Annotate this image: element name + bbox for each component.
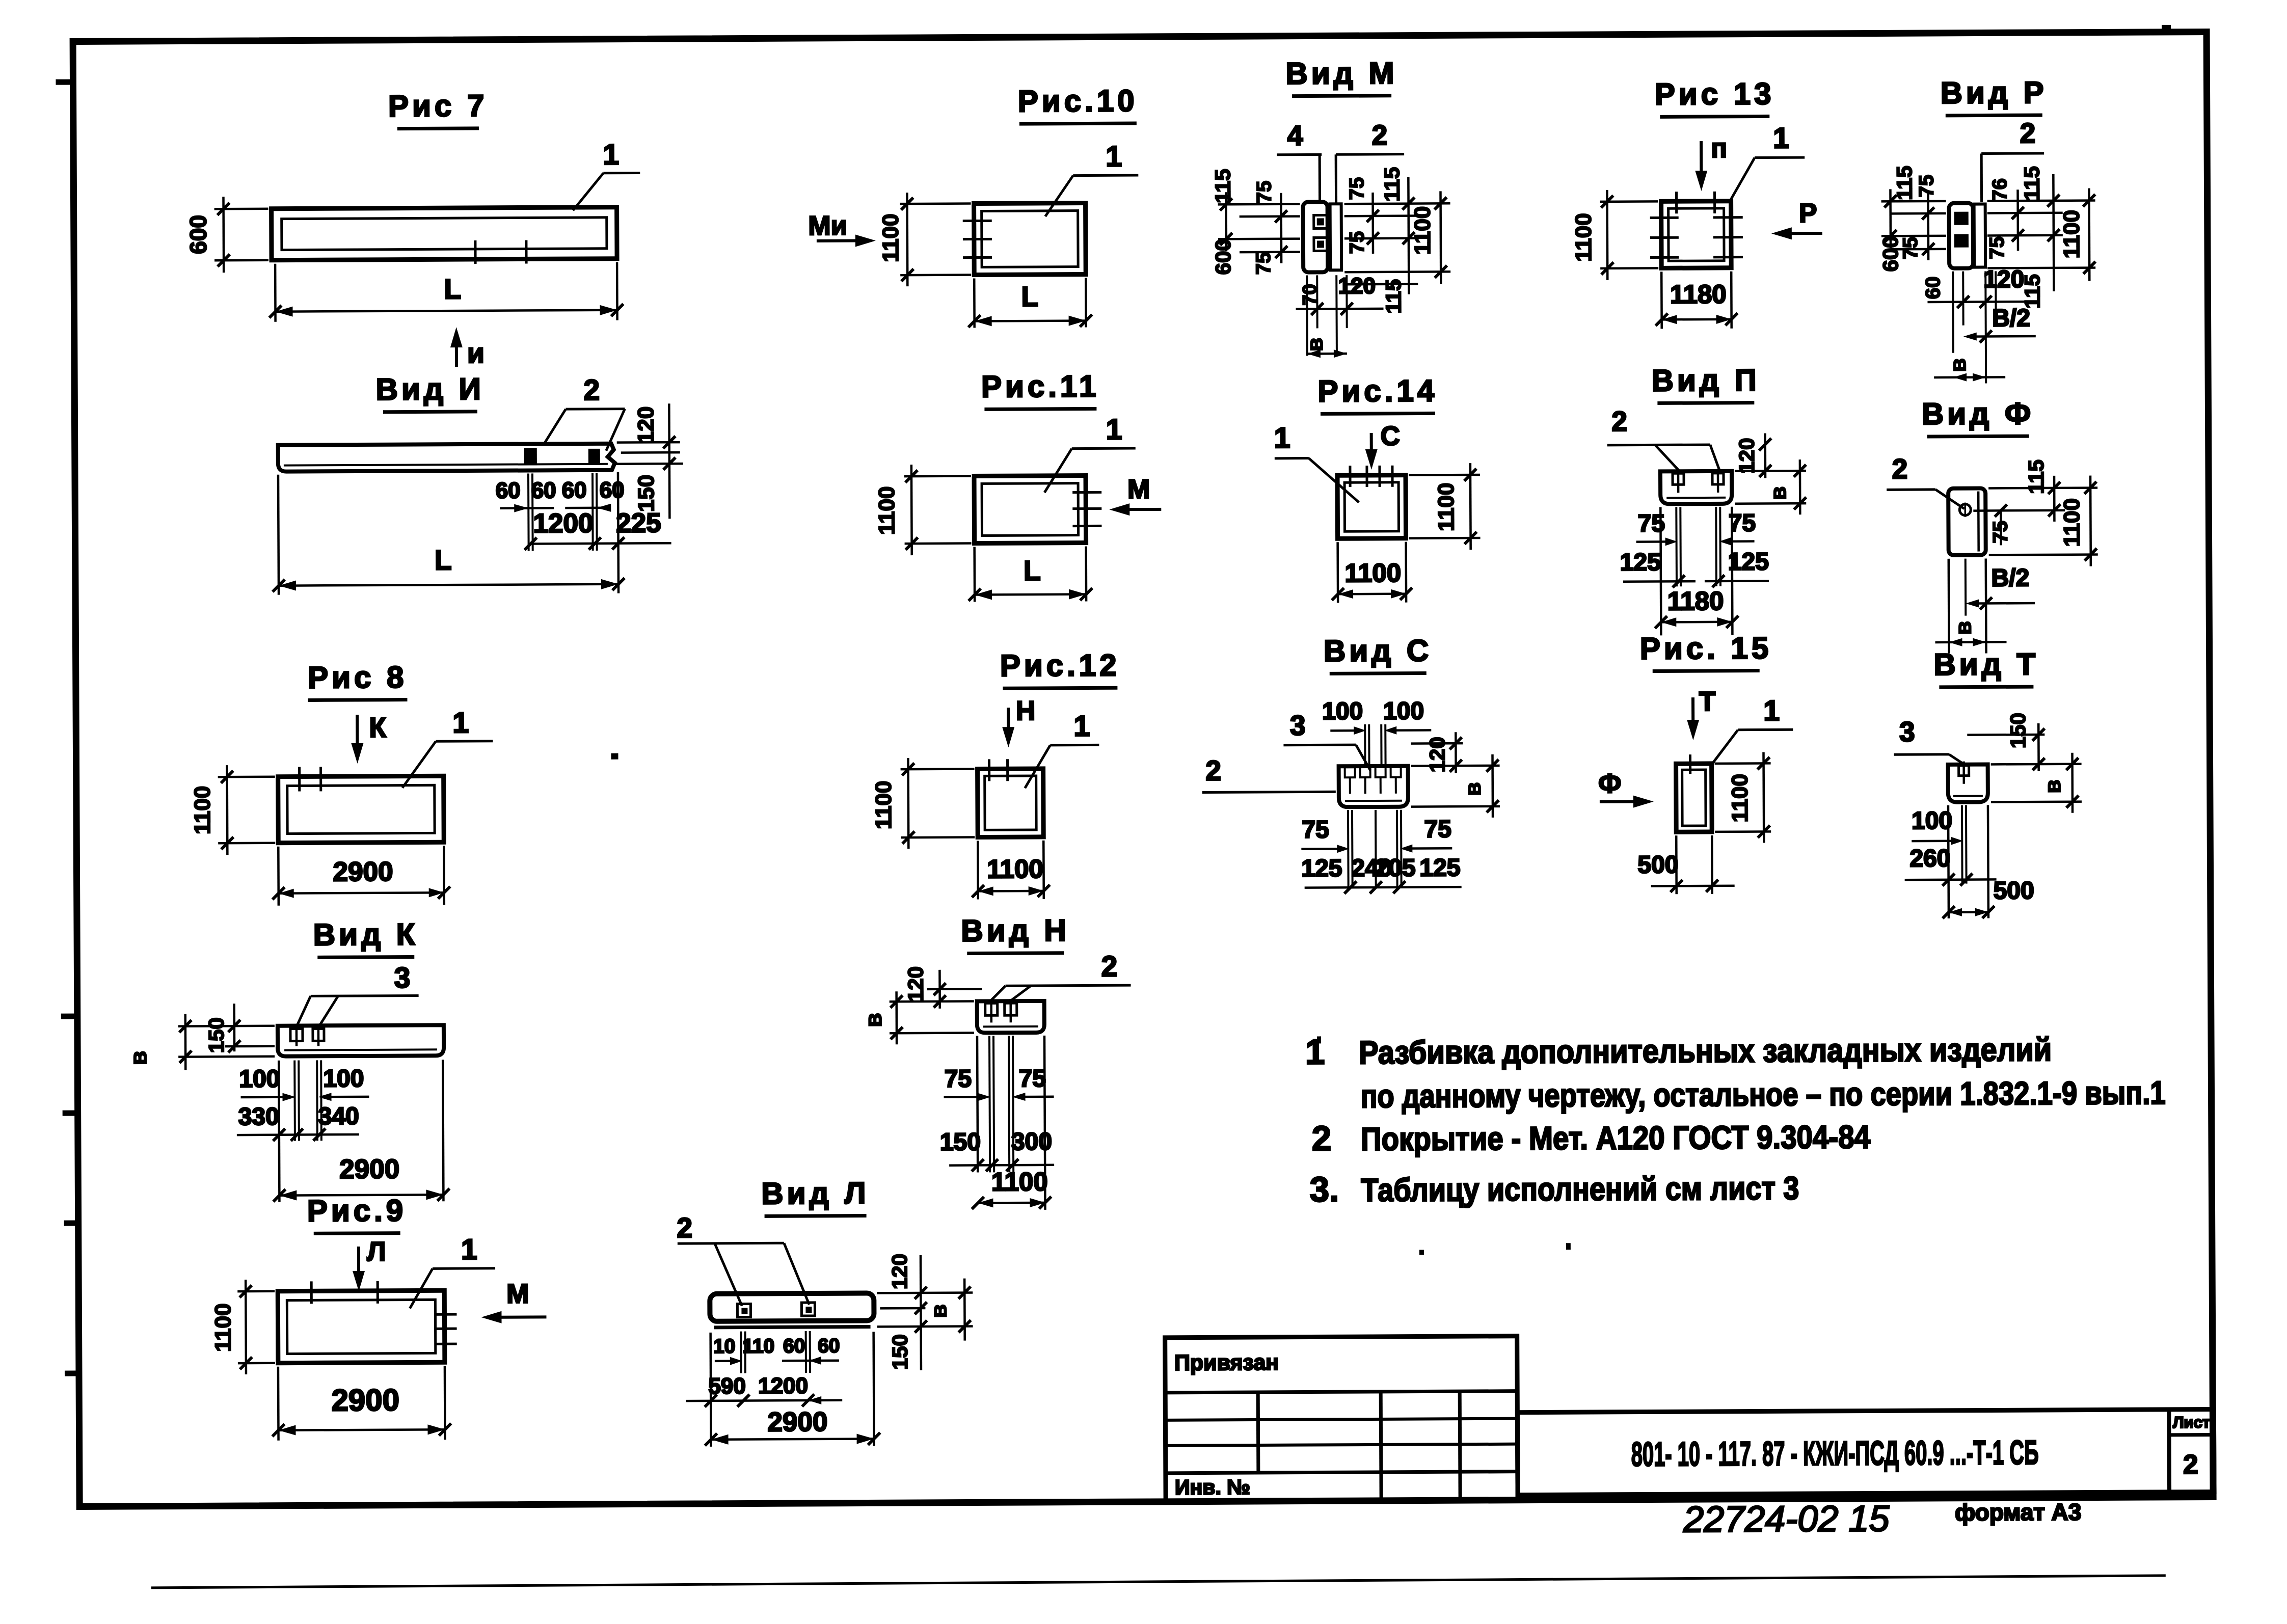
svg-text:1100: 1100 xyxy=(1571,213,1596,262)
svg-text:150: 150 xyxy=(634,475,659,512)
block outline Рис 11 xyxy=(974,476,1086,544)
embed plate 2 (Вид Л) xyxy=(801,1303,815,1316)
svg-text:75: 75 xyxy=(1019,1065,1046,1092)
svg-text:120: 120 xyxy=(1338,274,1376,299)
view arrow Р (Рис 13) xyxy=(1778,232,1822,235)
weld tick top edge (Рис 15) xyxy=(1689,754,1691,774)
block outline Рис 8 xyxy=(278,776,444,843)
svg-text:75: 75 xyxy=(1253,181,1275,204)
leader label 1 (Рис 15) xyxy=(1711,730,1738,765)
dimension 1100 (Вид Н) xyxy=(1044,1036,1045,1210)
view arrow И xyxy=(455,332,458,367)
svg-text:1100: 1100 xyxy=(1344,558,1401,588)
beam outline Рис 7 xyxy=(272,207,617,260)
svg-text:формат А3: формат А3 xyxy=(1955,1499,2082,1526)
svg-text:Вид Ф: Вид Ф xyxy=(1922,396,2034,431)
svg-text:60: 60 xyxy=(783,1335,805,1357)
svg-text:801- 10 - 117. 87 - КЖИ-ПСД 60: 801- 10 - 117. 87 - КЖИ-ПСД 60.9 ...-Т-1… xyxy=(1631,1433,2039,1474)
dimension 1100 (Рис 11) xyxy=(904,475,971,477)
bottom extension lines (Вид Р) xyxy=(1952,272,1954,353)
svg-text:в: в xyxy=(1461,782,1486,796)
leader label 2 (Вид Н) xyxy=(1006,985,1131,986)
svg-text:2900: 2900 xyxy=(333,857,393,887)
svg-text:L: L xyxy=(435,544,452,576)
svg-text:2: 2 xyxy=(1205,754,1221,786)
dimension 600 (Рис 7 height) xyxy=(214,208,268,210)
svg-text:75: 75 xyxy=(1346,231,1368,254)
svg-text:по данному чертежу, остальное: по данному чертежу, остальное – по серии… xyxy=(1360,1074,2165,1115)
svg-text:115: 115 xyxy=(2024,459,2048,494)
embed plate 2 (Вид П) xyxy=(1712,473,1724,484)
svg-text:150: 150 xyxy=(888,1334,912,1370)
svg-text:125: 125 xyxy=(1301,855,1342,882)
svg-text:2: 2 xyxy=(677,1212,692,1243)
svg-text:1100: 1100 xyxy=(2059,210,2084,259)
leader label 1 (Рис 8) xyxy=(402,741,436,788)
dimension 1100 (Рис 13) xyxy=(1600,200,1658,203)
dimension 1100 (Рис 10) xyxy=(900,202,971,205)
dimension B (Вид Н left) xyxy=(890,1000,974,1003)
svg-text:1200: 1200 xyxy=(758,1373,808,1398)
view arrow Т (Рис 15) xyxy=(1691,697,1694,733)
svg-text:60: 60 xyxy=(531,478,556,503)
svg-text:205: 205 xyxy=(1375,855,1415,882)
svg-text:в: в xyxy=(125,1051,151,1066)
bar outline Вид П xyxy=(1660,471,1732,504)
embed plate (Вид Т) xyxy=(1959,766,1969,776)
embed plate 2 on bar (Вид И) xyxy=(588,449,600,465)
svg-text:Разбивка дополнительных закл: Разбивка дополнительных закладных издели… xyxy=(1359,1031,2052,1071)
dimension 1100 (Рис 8) xyxy=(218,775,275,778)
svg-text:120: 120 xyxy=(1735,438,1759,473)
dimension B (Вид Л right) xyxy=(963,1279,966,1341)
scan speck comma xyxy=(1566,1243,1571,1250)
svg-text:60: 60 xyxy=(600,478,625,503)
dimension 120 (Вид Н left) xyxy=(927,988,982,990)
extension lines below (Вид Н) xyxy=(989,1036,990,1172)
svg-text:Вид М: Вид М xyxy=(1285,56,1397,91)
right extension lines (Вид И) xyxy=(617,441,680,444)
svg-text:1: 1 xyxy=(1763,694,1780,727)
dimension 2900 (Вид К) xyxy=(279,1195,443,1195)
embed plate 2 (Вид Н) xyxy=(1005,1003,1017,1015)
dimension L (Рис 11) xyxy=(973,547,976,602)
svg-text:330: 330 xyxy=(238,1103,279,1130)
svg-text:150: 150 xyxy=(2006,713,2030,748)
hatch ticks left edge (Рис 10) xyxy=(963,220,992,222)
extension lines below (Вид П) xyxy=(1675,507,1678,586)
leader label 1 (Рис 12) xyxy=(1025,745,1050,788)
svg-text:2: 2 xyxy=(1372,119,1388,151)
svg-text:1100: 1100 xyxy=(2059,498,2084,547)
svg-text:2: 2 xyxy=(1611,405,1627,437)
weld ticks on beam bottom edge xyxy=(474,240,476,264)
svg-text:1100: 1100 xyxy=(874,486,899,535)
svg-text:Вид Р: Вид Р xyxy=(1940,75,2047,110)
dimension 1100 (Рис 12 bottom) xyxy=(977,841,979,899)
svg-text:1100: 1100 xyxy=(878,213,903,262)
dimension B (Вид Т right) xyxy=(1991,763,2082,765)
svg-text:в: в xyxy=(1951,621,1976,635)
svg-text:в: в xyxy=(860,1013,886,1027)
view arrow Л (Рис 9) xyxy=(357,1247,360,1285)
block outline Рис 9 xyxy=(278,1290,445,1363)
hatch ticks left edge (Рис 13) xyxy=(1650,216,1679,219)
svg-text:150: 150 xyxy=(940,1128,981,1155)
leader label 1 (Рис 13) xyxy=(1730,158,1755,201)
svg-text:С: С xyxy=(1380,421,1400,451)
bar outline Вид Н xyxy=(977,1001,1044,1033)
block outline Рис 14 xyxy=(1337,475,1406,539)
dimension 1100 (Вид Р right) xyxy=(2088,188,2090,281)
block outline Рис 15 xyxy=(1676,764,1712,832)
weld ticks top edge (Рис 14) xyxy=(1349,466,1351,487)
svg-text:в: в xyxy=(1946,358,1971,372)
dimension 115 600 (Вид М left) xyxy=(1225,192,1227,251)
left margin tick marks xyxy=(56,79,74,85)
dimension L (Вид И) xyxy=(278,475,279,595)
svg-text:Рис. 15: Рис. 15 xyxy=(1640,631,1772,665)
svg-text:100: 100 xyxy=(323,1065,364,1092)
table column lines xyxy=(1256,1392,1260,1473)
bar outline Вид И xyxy=(278,444,615,472)
svg-text:В/2: В/2 xyxy=(1992,305,2030,332)
bar outline Вид К xyxy=(278,1025,444,1056)
svg-text:75: 75 xyxy=(1899,237,1922,260)
svg-text:60: 60 xyxy=(818,1335,840,1357)
svg-text:1100: 1100 xyxy=(190,786,215,835)
dimension 75 115 (Вид М right) xyxy=(1371,193,1374,254)
svg-text:115: 115 xyxy=(1380,167,1404,202)
svg-text:1100: 1100 xyxy=(871,780,896,829)
svg-text:60: 60 xyxy=(496,478,521,503)
svg-text:115: 115 xyxy=(1381,279,1405,314)
svg-text:60: 60 xyxy=(1922,277,1944,300)
dimension B (Вид С right) xyxy=(1411,765,1500,767)
svg-text:225: 225 xyxy=(616,508,661,538)
dimension 76 115 (Вид Р right) xyxy=(2016,190,2019,251)
svg-text:340: 340 xyxy=(318,1103,359,1130)
svg-text:100: 100 xyxy=(1912,807,1952,834)
dimension B (Вид К) xyxy=(184,1014,187,1070)
leader label 3 (Вид К) xyxy=(311,994,419,997)
leader label 1 (Рис 10) xyxy=(1045,176,1073,216)
extension lines left (Вид К) xyxy=(178,1024,275,1027)
dimension 120 (Вид С right) xyxy=(1411,742,1463,745)
svg-text:120: 120 xyxy=(903,966,927,1002)
svg-text:Вид К: Вид К xyxy=(313,917,419,952)
block outline Рис 12 xyxy=(978,769,1044,837)
dimension 1100 (Рис 14 bottom) xyxy=(1336,542,1339,603)
bar outline Вид Л xyxy=(710,1293,874,1321)
view arrow К (Рис 8) xyxy=(356,715,359,757)
leader label 1 (Рис 11) xyxy=(1044,449,1072,493)
svg-text:Рис.10: Рис.10 xyxy=(1018,84,1138,118)
pin (Вид Ф) xyxy=(1959,504,1971,516)
svg-text:115: 115 xyxy=(2020,166,2043,201)
right extension lines (Вид Л) xyxy=(877,1291,973,1294)
svg-text:3: 3 xyxy=(1290,710,1306,741)
leader label 1 (Рис 9) xyxy=(410,1268,433,1308)
stamp box xyxy=(1517,1409,2214,1495)
svg-text:10: 10 xyxy=(713,1336,736,1358)
svg-text:22724-02 15: 22724-02 15 xyxy=(1683,1498,1890,1540)
extension lines below (Вид С) xyxy=(1347,810,1350,888)
embed plate 1 on bar (Вид И) xyxy=(524,448,537,465)
svg-text:1: 1 xyxy=(1106,413,1122,446)
svg-text:Лист: Лист xyxy=(2173,1414,2210,1431)
svg-text:Ми: Ми xyxy=(808,211,847,241)
svg-text:70: 70 xyxy=(1299,284,1321,305)
svg-text:2: 2 xyxy=(2020,117,2036,149)
svg-text:L: L xyxy=(1021,281,1038,312)
svg-text:2: 2 xyxy=(1892,453,1908,484)
svg-text:1100: 1100 xyxy=(1410,206,1435,255)
left extension lines (Вид Р) xyxy=(1881,200,1946,203)
svg-text:75: 75 xyxy=(1252,252,1275,275)
svg-text:Рис.9: Рис.9 xyxy=(307,1194,407,1228)
svg-text:Рис.11: Рис.11 xyxy=(981,369,1100,403)
dimension L (Рис 7 length) xyxy=(274,264,277,322)
svg-text:76: 76 xyxy=(1988,178,2011,201)
svg-text:600: 600 xyxy=(1211,239,1235,275)
svg-text:2: 2 xyxy=(1312,1119,1332,1158)
svg-text:Вид Н: Вид Н xyxy=(961,913,1070,948)
weld ticks top edge (Рис 12) xyxy=(988,759,990,781)
svg-text:120: 120 xyxy=(633,407,658,444)
svg-text:3.: 3. xyxy=(1309,1170,1339,1209)
svg-text:1100: 1100 xyxy=(987,854,1043,884)
svg-text:1: 1 xyxy=(1274,422,1290,454)
svg-text:75: 75 xyxy=(1424,816,1451,843)
svg-text:1: 1 xyxy=(452,707,469,739)
svg-text:75: 75 xyxy=(1915,175,1938,198)
svg-text:Рис.12: Рис.12 xyxy=(1000,648,1120,683)
svg-text:4: 4 xyxy=(1287,120,1303,151)
svg-text:1: 1 xyxy=(1305,1032,1325,1071)
svg-text:2: 2 xyxy=(583,374,600,407)
view arrow С (Рис 14) xyxy=(1370,433,1373,463)
svg-text:1: 1 xyxy=(461,1233,477,1266)
dimension 1200 and 225 (Вид И) xyxy=(528,508,529,550)
pin extension lines up (Вид С) xyxy=(1364,724,1366,767)
svg-text:100: 100 xyxy=(239,1066,280,1093)
dimension 75 75 (Вид Р left) xyxy=(1927,190,1929,260)
weld ticks top edge (Рис 8) xyxy=(298,767,301,792)
dimension 115 600 (Вид Р left) xyxy=(1889,189,1892,248)
svg-text:L: L xyxy=(1024,555,1041,586)
weld ticks top edge (Рис 9) xyxy=(310,1281,313,1304)
svg-text:100: 100 xyxy=(1383,697,1424,724)
svg-text:М: М xyxy=(506,1279,529,1309)
leader label 2 (Вид И) xyxy=(543,409,566,445)
svg-text:Рис 13: Рис 13 xyxy=(1655,76,1775,111)
svg-text:500: 500 xyxy=(1637,851,1678,878)
dimension 500 (Рис 15) xyxy=(1675,835,1678,894)
leader label 1 (Рис 7) xyxy=(573,173,603,210)
dimension 120 (Вид П right) xyxy=(1735,470,1806,472)
weld ticks top edge (Рис 13) xyxy=(1675,192,1678,213)
embed plate 1 (Вид П) xyxy=(1673,473,1684,484)
svg-text:1: 1 xyxy=(603,139,619,171)
svg-text:Рис 7: Рис 7 xyxy=(388,89,488,123)
svg-text:L: L xyxy=(444,273,461,305)
svg-text:в: в xyxy=(1766,486,1791,500)
svg-text:1100: 1100 xyxy=(1434,482,1459,531)
svg-text:Привязан: Привязан xyxy=(1174,1350,1279,1375)
svg-text:Р: Р xyxy=(1799,198,1817,228)
svg-text:100: 100 xyxy=(1322,698,1363,725)
svg-text:2: 2 xyxy=(2183,1450,2198,1480)
extension lines below bar (Вид И) xyxy=(527,473,530,551)
dimension 1100 (Вид Ф) xyxy=(1989,553,2098,556)
svg-text:1: 1 xyxy=(1773,122,1789,154)
element outline (Вид С) xyxy=(1339,766,1408,807)
dimension 2900 (Рис 9) xyxy=(277,1367,280,1441)
svg-text:Инв. №: Инв. № xyxy=(1175,1475,1250,1499)
svg-text:Ф: Ф xyxy=(1598,769,1622,799)
sheet box lines xyxy=(2167,1410,2171,1492)
hatch ticks right edge (Рис 11) xyxy=(1072,491,1101,494)
embed plates (Вид Р) xyxy=(1954,212,1969,225)
element outline (Вид Р) xyxy=(1949,203,1974,268)
dimension 1180 (Рис 13) xyxy=(1660,272,1663,329)
svg-text:125: 125 xyxy=(1419,854,1460,881)
scan speck dot 2 xyxy=(1317,1036,1321,1043)
svg-text:1100: 1100 xyxy=(210,1303,235,1352)
svg-text:Покрытие - Мет. А120 ГОСТ 9.: Покрытие - Мет. А120 ГОСТ 9.304-84 xyxy=(1361,1119,1871,1158)
extension lines below (Вид К) xyxy=(279,1061,279,1202)
svg-text:75: 75 xyxy=(1986,236,2008,259)
svg-text:1100: 1100 xyxy=(991,1167,1048,1197)
svg-text:590: 590 xyxy=(708,1374,746,1399)
element outline Вид Т xyxy=(1948,764,1988,802)
svg-text:в: в xyxy=(1303,338,1328,351)
svg-text:Вид Л: Вид Л xyxy=(761,1176,869,1210)
svg-text:Л: Л xyxy=(367,1237,386,1267)
svg-text:2900: 2900 xyxy=(339,1154,399,1185)
dimension 1100 (Рис 15 right) xyxy=(1715,762,1771,765)
block outline Рис 13 xyxy=(1661,201,1732,268)
svg-text:и: и xyxy=(467,337,485,369)
embed plates (Вид М) xyxy=(1314,215,1327,228)
svg-text:75: 75 xyxy=(1729,510,1756,537)
svg-text:110: 110 xyxy=(742,1335,774,1357)
svg-text:75: 75 xyxy=(1638,510,1665,537)
view arrow Н (Рис 12) xyxy=(1007,708,1010,740)
svg-text:125: 125 xyxy=(1728,548,1769,575)
dimension 120 150 (Вид Л right) xyxy=(921,1255,921,1370)
top edge nub xyxy=(2162,25,2171,31)
dimension 1180 (Вид П) xyxy=(1661,620,1732,623)
embed plate 1 (Вид Н) xyxy=(985,1003,998,1015)
svg-text:1: 1 xyxy=(1106,140,1122,173)
extension lines below (Вид Т) xyxy=(1961,805,1963,884)
bottom extension lines (Вид Ф) xyxy=(1948,559,1950,654)
view arrow П (Рис 13) xyxy=(1700,141,1703,184)
svg-text:120: 120 xyxy=(1425,737,1449,772)
svg-text:1200: 1200 xyxy=(533,508,593,539)
dimension 120 / 150 (Вид И right) xyxy=(669,403,669,519)
embed plate 2 (Вид К) xyxy=(313,1028,324,1041)
svg-text:3: 3 xyxy=(394,962,410,994)
svg-text:75: 75 xyxy=(945,1066,972,1093)
svg-text:150: 150 xyxy=(204,1017,228,1053)
svg-text:115: 115 xyxy=(1892,166,1916,200)
svg-text:125: 125 xyxy=(1620,549,1661,576)
dimension B (Вид П right) xyxy=(1735,502,1806,505)
dimension 75 75 (Вид М left) xyxy=(1280,193,1282,263)
svg-text:1180: 1180 xyxy=(1667,586,1724,616)
svg-text:75: 75 xyxy=(1346,177,1368,200)
block outline Рис 10 xyxy=(974,203,1086,275)
svg-text:115: 115 xyxy=(1210,169,1234,203)
svg-text:Вид П: Вид П xyxy=(1651,363,1760,397)
svg-text:в: в xyxy=(926,1304,951,1318)
svg-text:2900: 2900 xyxy=(767,1407,827,1438)
dimension L (Рис 10) xyxy=(973,278,976,328)
svg-text:2: 2 xyxy=(1101,950,1117,983)
scan speck dot 1 xyxy=(611,753,618,760)
svg-text:Рис.14: Рис.14 xyxy=(1317,373,1438,408)
svg-text:75: 75 xyxy=(1302,816,1329,843)
svg-text:1100: 1100 xyxy=(1728,774,1753,823)
dimension 115 (Вид Ф) xyxy=(1988,486,2097,489)
svg-text:1: 1 xyxy=(1073,710,1090,742)
svg-text:Н: Н xyxy=(1016,696,1036,726)
svg-text:Рис 8: Рис 8 xyxy=(308,660,408,695)
dimension 1100 (Рис 14 right) xyxy=(1409,474,1480,476)
svg-text:3: 3 xyxy=(1899,716,1915,747)
view arrow М (Рис 9) xyxy=(487,1315,546,1319)
svg-text:600: 600 xyxy=(185,215,211,254)
svg-text:Таблицу исполнений см лист 3: Таблицу исполнений см лист 3 xyxy=(1361,1170,1799,1208)
dimension 1100 (Рис 9) xyxy=(237,1290,275,1292)
title block small table outline xyxy=(1165,1336,1518,1502)
right extension lines (Вид Р) xyxy=(1987,199,2095,202)
svg-text:Вид С: Вид С xyxy=(1324,633,1433,668)
svg-text:60: 60 xyxy=(562,478,587,503)
embed plate 1 (Вид Л) xyxy=(737,1304,750,1317)
svg-text:п: п xyxy=(1711,133,1727,164)
svg-text:500: 500 xyxy=(1994,877,2034,904)
element outline (Вид М) xyxy=(1303,202,1328,272)
svg-text:В/2: В/2 xyxy=(1991,564,2029,591)
table row lines xyxy=(1165,1391,1517,1393)
svg-text:М: М xyxy=(1127,474,1150,504)
right extension lines (Вид М) xyxy=(1344,202,1450,205)
embed plate 1 (Вид К) xyxy=(290,1028,303,1041)
scan line below frame xyxy=(151,1576,2166,1588)
left extension lines (Вид М) xyxy=(1218,203,1300,205)
svg-text:К: К xyxy=(369,712,386,743)
svg-text:260: 260 xyxy=(1909,845,1950,872)
hatch ticks right edge (Рис 9) xyxy=(434,1313,456,1316)
svg-text:Вид И: Вид И xyxy=(376,372,485,407)
svg-text:120: 120 xyxy=(1983,266,2024,293)
svg-text:120: 120 xyxy=(887,1254,911,1289)
extension lines below (Вид Л) xyxy=(740,1332,742,1373)
dimension 150 (Вид К) xyxy=(233,1004,235,1051)
svg-text:2900: 2900 xyxy=(331,1383,399,1418)
bottom extension lines (Вид М) xyxy=(1306,276,1308,356)
svg-text:Т: Т xyxy=(1699,687,1716,717)
dimension 2900 (Рис 8) xyxy=(277,847,280,906)
hatch ticks right edge (Рис 13) xyxy=(1713,216,1743,219)
dimension 1100 (Вид М right) xyxy=(1439,191,1442,284)
svg-text:1180: 1180 xyxy=(1670,280,1727,309)
embed plates row (Вид С) xyxy=(1345,767,1355,777)
